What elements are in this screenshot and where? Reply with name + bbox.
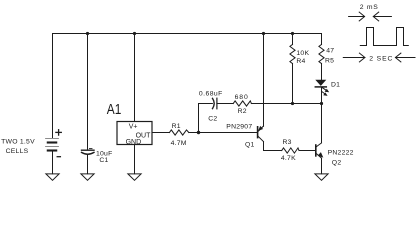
wire C2 to R2 xyxy=(217,103,233,105)
node supply tap R4 xyxy=(291,32,294,35)
ground (Q2 emitter) xyxy=(315,174,328,180)
resistor R5 xyxy=(319,45,324,64)
wire A1 GND pin down xyxy=(134,145,136,174)
node supply tap Q1 emitter xyxy=(262,32,265,35)
svg-text:R1: R1 xyxy=(172,123,181,130)
node R4 bottom junction xyxy=(291,102,294,105)
transistor Q1 PN2907 xyxy=(258,126,264,142)
svg-text:2 SEC: 2 SEC xyxy=(369,55,393,62)
svg-text:R2: R2 xyxy=(238,108,247,115)
ground (C1) xyxy=(81,174,94,180)
svg-text:TWO 1.5V: TWO 1.5V xyxy=(1,139,35,146)
wire C1 bottom stem xyxy=(87,154,89,174)
svg-text:Q1: Q1 xyxy=(245,141,255,148)
svg-text:GND: GND xyxy=(126,139,142,146)
wire R5 top (rail corner) xyxy=(321,34,323,45)
transistor Q2 PN2222 xyxy=(316,143,324,158)
svg-text:4.7M: 4.7M xyxy=(171,140,187,147)
wire R3 to Q2 base xyxy=(299,150,315,152)
label battery minus sign xyxy=(57,156,60,158)
svg-text:2 mS: 2 mS xyxy=(360,4,379,11)
wire battery negative stem xyxy=(52,151,54,174)
svg-text:4.7K: 4.7K xyxy=(281,155,296,162)
svg-text:C2: C2 xyxy=(208,116,217,123)
svg-text:PN2907: PN2907 xyxy=(226,123,252,130)
ground (A1) xyxy=(128,174,141,180)
resistor R4 xyxy=(290,45,295,64)
wire R1 to node xyxy=(189,132,257,134)
wire C2 branch up xyxy=(199,104,213,133)
node R1/C2/Q1 base junction xyxy=(197,131,200,134)
svg-text:C1: C1 xyxy=(99,157,108,164)
wire C1 top xyxy=(87,34,89,150)
svg-text:10K: 10K xyxy=(296,50,309,57)
svg-text:CELLS: CELLS xyxy=(6,148,29,155)
svg-text:V+: V+ xyxy=(129,123,138,130)
timing diagram: 2 mS dimension arrows xyxy=(349,12,392,21)
node supply tap for C1 xyxy=(86,32,89,35)
capacitor C2 xyxy=(213,98,217,109)
svg-text:0.68uF: 0.68uF xyxy=(199,91,223,98)
battery B1 TWO 1.5V CELLS xyxy=(46,139,59,151)
wire top supply rail xyxy=(53,33,322,35)
svg-text:Q2: Q2 xyxy=(332,160,342,167)
resistor R2 xyxy=(233,101,251,106)
node D1 cathode / Q2 collector junction xyxy=(320,102,323,105)
wire R5 bottom to D1 anode xyxy=(321,64,323,80)
svg-text:R3: R3 xyxy=(283,139,292,146)
svg-text:PN2222: PN2222 xyxy=(328,150,354,157)
svg-text:R5: R5 xyxy=(325,58,334,65)
diode D1 LED xyxy=(315,80,329,96)
wire D1 cathode to junction xyxy=(321,88,323,104)
wire A1 OUT pin xyxy=(152,132,169,134)
wire Q1 collector down and to R3 xyxy=(264,142,282,151)
svg-text:D1: D1 xyxy=(331,81,340,88)
resistor R3 xyxy=(282,148,299,153)
svg-text:47: 47 xyxy=(326,47,334,54)
svg-text:680: 680 xyxy=(235,94,249,101)
resistor R1 xyxy=(169,130,188,135)
timing diagram: 2 SEC dimension arrows xyxy=(343,53,415,62)
wire A1 V+ feed xyxy=(134,34,136,122)
capacitor C1 xyxy=(82,149,95,155)
svg-text:A1: A1 xyxy=(107,101,122,117)
wire R4 bottom xyxy=(292,64,294,104)
timing diagram: pulse waveform xyxy=(360,28,408,46)
op-amp U1 box A1 xyxy=(117,122,152,145)
wire left vertical battery feed xyxy=(52,34,54,139)
node supply tap for A1 V+ xyxy=(133,32,136,35)
wire R2 to R4 bottom and D1 (crosses emitter feed) xyxy=(251,103,321,105)
wire Q2 collector up to D1 junction xyxy=(321,104,323,143)
ground (battery) xyxy=(46,174,59,180)
label battery plus sign xyxy=(56,130,61,135)
wire R4 top xyxy=(292,34,294,45)
svg-text:R4: R4 xyxy=(296,58,305,65)
wire Q2 emitter down xyxy=(321,158,323,174)
wire Q1 emitter feed xyxy=(263,34,265,127)
